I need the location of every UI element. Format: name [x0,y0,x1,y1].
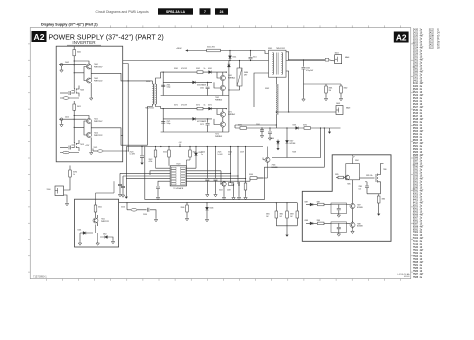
svg-text:7568: 7568 [413,262,419,264]
wire driver bases [74,121,86,135]
svg-text:1k2: 1k2 [266,216,269,218]
svg-text:3548: 3548 [413,119,419,121]
wire secondary top to block1 [156,72,161,84]
svg-text:TMS-91352: TMS-91352 [276,48,285,50]
svg-text:470 2W: 470 2W [181,104,187,106]
svg-text:3561: 3561 [174,68,178,70]
svg-text:PMBT2907: PMBT2907 [94,121,103,123]
wire 5562 top [275,77,277,84]
svg-text:2422: 2422 [429,45,435,47]
svg-text:3198: 3198 [429,36,435,38]
wire bus [119,202,298,204]
svg-text:BZX384: BZX384 [290,143,296,145]
svg-text:7412: 7412 [413,244,419,246]
parts list ticks [413,43,416,262]
svg-text:3831: 3831 [266,214,270,216]
svg-text:3536: 3536 [181,207,185,209]
mosfet 7586 [360,177,375,179]
transistor 7301 [93,218,98,223]
svg-text:3584: 3584 [355,160,359,162]
header tab 24 [215,8,228,14]
svg-text:3567: 3567 [413,143,419,145]
svg-text:3585 10k: 3585 10k [366,175,373,177]
svg-text:3522: 3522 [413,95,419,97]
wire bead line [127,203,147,210]
resistor 3592 [304,127,311,130]
parts list column [413,30,440,279]
ground bank [286,226,288,233]
diode 6572 [193,117,196,120]
sheet label A2 left [32,31,47,42]
svg-text:3590: 3590 [413,167,419,169]
svg-text:2585: 2585 [359,186,363,188]
svg-text:6562: 6562 [413,211,419,213]
supply stub [179,144,181,147]
diode 6587 [306,204,310,206]
transistor 7572 [220,122,225,127]
svg-text:7562: 7562 [413,253,419,255]
capacitor 2591 [260,130,264,131]
resistor 3520 [168,147,170,151]
capacitor 2531 [118,184,122,185]
svg-text:100p: 100p [167,123,171,125]
svg-text:7301: 7301 [101,219,105,221]
bead 5400 [63,97,69,100]
resistor 3562 [197,71,203,74]
svg-text:Display Supply (37"-42") (Part: Display Supply (37"-42") (Part 2) [41,22,98,26]
svg-text:6411: 6411 [413,202,419,204]
svg-text:1k: 1k [204,104,206,106]
capacitor 2592 [269,128,271,131]
svg-text:6566: 6566 [413,214,419,216]
svg-text:7301: 7301 [413,232,419,234]
svg-text:5520: 5520 [146,81,150,83]
header tab SPB1.3A LA [158,8,193,14]
resistor bank 3831 3832 3833 [276,203,297,226]
svg-text:6551: 6551 [233,57,237,59]
resistor 3521 [189,147,191,151]
wire inverter out2 to primary bottom [121,104,153,145]
resistor 3528 [244,183,247,190]
svg-text:7561: 7561 [413,250,419,252]
svg-text:7401: 7401 [413,235,419,237]
svg-text:470p 3kV: 470p 3kV [306,70,314,72]
diode 6562 [193,81,196,84]
resistor 3536 [186,203,188,205]
svg-text:24: 24 [220,10,224,14]
svg-text:3562: 3562 [413,128,419,130]
svg-text:7157J890-1: 7157J890-1 [33,275,47,279]
diode 6565 [227,64,230,67]
zener 6520 [195,147,197,153]
capacitor 2524 [206,147,208,179]
inverter block outline [56,46,123,162]
svg-text:2520: 2520 [413,36,419,38]
svg-text:3563: 3563 [413,131,419,133]
wire loop to rows [352,180,354,202]
svg-text:3562: 3562 [196,68,200,70]
svg-text:3582: 3582 [413,149,419,151]
bias loop 7585 [346,164,360,180]
error amp cluster [221,147,246,185]
svg-text:2551: 2551 [413,56,419,58]
capacitor 2534 [156,187,160,188]
capacitor 2561 [161,85,165,86]
resistor 3587 [313,204,317,206]
resistor 3573 [175,118,177,120]
svg-text:7411: 7411 [413,241,419,243]
diode 6301 [80,225,96,234]
capacitor 2572 [207,119,209,123]
capacitor gate [60,147,68,149]
svg-text:6587: 6587 [305,201,309,203]
capacitor gate [60,92,68,94]
transistor 7526 [222,182,226,186]
wire 5561 secondary top out [286,52,289,60]
svg-text:6571: 6571 [208,104,212,106]
resistor 3563 [175,81,177,83]
svg-text:1u 63V: 1u 63V [130,154,136,156]
diode 6571 [209,107,212,110]
wire 5561 secondary bottom out [286,71,289,112]
resistor 3301 [95,202,97,205]
capacitor 2585 [366,182,368,186]
wire block left leg 56 [162,72,164,95]
svg-text:6567: 6567 [413,217,419,219]
svg-text:2591: 2591 [413,74,419,76]
svg-text:3521: 3521 [413,92,419,94]
wire driver output [91,68,123,81]
svg-text:3526: 3526 [413,104,419,106]
svg-text:3833: 3833 [290,214,294,216]
svg-text:6562 BAV21: 6562 BAV21 [197,83,206,86]
svg-text:3572: 3572 [196,104,200,106]
diode 6551 [229,51,231,56]
svg-text:3411: 3411 [413,83,419,85]
svg-text:5521: 5521 [94,147,98,149]
wires lamp error common [352,211,354,230]
svg-text:1602: 1602 [336,103,340,105]
svg-text:3587: 3587 [413,161,419,163]
svg-text:2526: 2526 [413,53,419,55]
svg-text:3586: 3586 [413,158,419,160]
diode 6561 [209,71,212,74]
svg-text:6566: 6566 [270,138,274,140]
ic pin wires left [150,168,170,175]
svg-text:6591: 6591 [413,229,419,231]
controller IC 7520 [170,166,186,186]
svg-text:3122: 3122 [429,42,435,44]
resistor 3588 [313,222,317,224]
svg-text:6567: 6567 [290,141,294,143]
svg-text:2562: 2562 [413,62,419,64]
svg-text:3524: 3524 [413,101,419,103]
ic long wires left [120,173,170,178]
svg-text:6301: 6301 [413,194,419,196]
capacitor 2412 [59,118,87,120]
svg-text:+380V: +380V [176,48,182,50]
capacitor 2533 [125,178,127,180]
wire 5561 primary return [254,73,269,107]
ground connector 1590 [64,195,68,202]
svg-text:3832: 3832 [280,214,284,216]
svg-text:7562: 7562 [215,97,219,99]
svg-text:3561: 3561 [413,125,419,127]
svg-text:6401: 6401 [413,199,419,201]
svg-text:2551: 2551 [253,57,257,59]
svg-text:1k2: 1k2 [290,216,293,218]
transistor 7566 [265,157,270,162]
wire protection out [107,237,113,240]
svg-text:7413: 7413 [80,144,84,146]
ic pin wire lower left [158,181,170,186]
svg-text:4k7: 4k7 [228,154,231,156]
svg-text:3411: 3411 [77,106,81,108]
svg-text:6588: 6588 [413,226,419,228]
svg-text:7520: 7520 [413,247,419,249]
svg-text:6588: 6588 [305,220,309,222]
svg-text:TL1451ACN: TL1451ACN [173,187,184,190]
wire 5562 bottom [235,115,341,128]
resistor 3590 [69,166,71,171]
svg-text:2523: 2523 [413,45,419,47]
svg-text:Circuit Diagrams and PWB Layou: Circuit Diagrams and PWB Layouts [96,10,149,14]
svg-text:2402: 2402 [65,62,69,64]
svg-text:5562: 5562 [265,88,269,90]
transistor 7401 [87,64,92,69]
svg-text:3591: 3591 [413,170,419,172]
svg-text:3593: 3593 [413,176,419,178]
svg-text:7403: 7403 [80,90,84,92]
svg-text:2422: 2422 [429,39,435,41]
svg-text:1k: 1k [204,68,206,70]
svg-text:5591: 5591 [413,191,419,193]
wire feed +380V [188,50,207,52]
svg-text:7588: 7588 [357,223,361,225]
transistor 7571 [220,112,225,117]
svg-text:470k: 470k [149,161,153,163]
svg-text:SPB1.3A LA: SPB1.3A LA [166,10,186,14]
svg-text:6581: 6581 [413,220,419,222]
svg-text:3582: 3582 [344,88,348,90]
svg-text:2521: 2521 [413,39,419,41]
svg-text:3588: 3588 [413,164,419,166]
svg-text:1k2: 1k2 [280,216,283,218]
svg-text:1u: 1u [201,154,203,156]
svg-text:PMBT2222: PMBT2222 [94,135,103,137]
svg-text:2572: 2572 [200,124,204,126]
mosfet 7x02 [73,127,75,143]
resistor 3522 [155,147,157,151]
resistor 3566 [249,178,251,181]
transistor 7402 [87,78,92,83]
diode 6536 [206,203,208,207]
ground emitter [90,83,92,97]
svg-text:7587: 7587 [357,205,361,207]
wire 12V feed bead [93,150,97,152]
wire rail start drop [125,147,127,196]
wire sense feedback A [272,128,321,158]
wire supply rail 12V inverter [123,64,128,152]
svg-text:7: 7 [204,10,206,14]
wire block mid 57 [163,118,212,120]
resistor 3401 [73,47,75,50]
svg-text:7588: 7588 [413,277,419,279]
diode 6588 [306,222,310,224]
svg-text:7568: 7568 [292,152,296,154]
svg-text:5562: 5562 [413,185,419,187]
svg-text:6301: 6301 [78,230,82,232]
svg-text:5561: 5561 [268,48,272,50]
svg-text:3585: 3585 [413,155,419,157]
svg-text:3571: 3571 [174,104,178,106]
wire hv rail [123,60,325,62]
svg-text:2525: 2525 [218,152,222,154]
svg-text:3547: 3547 [413,116,419,118]
svg-text:3592: 3592 [413,173,419,175]
transistor 7412 [87,133,92,138]
svg-text:3551 2R2: 3551 2R2 [207,47,215,49]
svg-text:PMBT2222: PMBT2222 [101,221,109,223]
transformer 5561 [269,50,287,77]
diode 6567 [286,128,288,140]
capacitor 2532 [121,186,125,187]
svg-text:2421: 2421 [413,33,419,35]
resistor 3586 [379,194,381,196]
svg-text:7520: 7520 [176,164,180,166]
svg-text:5590: 5590 [413,188,419,190]
svg-text:PMBT2907: PMBT2907 [94,67,103,69]
svg-text:7563: 7563 [413,256,419,258]
wire lamp taps [229,61,240,91]
wire inverter out1 to primary top [123,81,153,84]
transistor 7561 [220,75,225,80]
transistor 7588 [350,222,355,227]
wire block left leg 57 [162,109,164,132]
svg-text:7586: 7586 [413,271,419,273]
svg-text:3591: 3591 [238,124,242,126]
ground top stub [329,128,331,130]
svg-text:3301: 3301 [413,77,419,79]
svg-text:7402: 7402 [413,238,419,240]
svg-text:6587: 6587 [413,223,419,225]
svg-text:3564: 3564 [413,134,419,136]
svg-text:3592: 3592 [303,124,307,126]
capacitor 2562 [207,82,209,86]
svg-text:6551: 6551 [413,205,419,207]
svg-text:2536: 2536 [143,214,147,216]
resistor 3585 [336,177,338,179]
svg-text:7581: 7581 [413,265,419,267]
svg-text:POWER SUPPLY (37"-42") (PART 2: POWER SUPPLY (37"-42") (PART 2) [49,35,164,42]
svg-text:A2: A2 [396,32,407,42]
resistor 3526 [228,183,234,186]
svg-text:3484: 3484 [413,86,419,88]
svg-text:5526: 5526 [121,207,125,209]
header tab 7 [200,8,211,14]
transformer 5520 [153,84,154,104]
svg-text:2524: 2524 [413,47,419,49]
wire control rail [126,146,263,148]
wire connector 1602 feed [276,111,336,113]
wire sense feedback B control box [145,128,324,199]
svg-text:6302: 6302 [413,196,419,198]
resistor 3411 [73,101,75,104]
svg-text:5561: 5561 [413,182,419,184]
svg-text:10n: 10n [359,188,362,190]
svg-text:BC848B: BC848B [272,167,278,169]
resistor 3591 [240,127,247,130]
svg-text:1k: 1k [73,174,75,176]
svg-text:65040: 65040 [404,276,410,278]
svg-text:3524: 3524 [219,190,223,192]
ground emitter [90,138,92,152]
transformer 5562 winding [275,84,278,115]
capacitor 2536 [148,208,149,212]
grounds error amp [224,184,246,196]
wire driver collector top [74,61,89,64]
svg-text:2585: 2585 [413,71,419,73]
svg-text:6536: 6536 [210,208,214,210]
svg-text:2522: 2522 [413,42,419,44]
svg-text:3301: 3301 [98,207,102,209]
wire block mid 56 [163,81,212,83]
svg-text:2529: 2529 [240,152,244,154]
diode 6591 [296,127,299,130]
capacitor 2527 [238,182,239,186]
junction sense nodes [320,127,321,128]
wire sense tie [304,83,342,85]
svg-text:7587: 7587 [413,274,419,276]
svg-text:3583: 3583 [413,152,419,154]
wire driver collector top [74,116,89,119]
transistor 7562 [220,85,225,90]
svg-text:3523: 3523 [413,98,419,100]
svg-text:2412: 2412 [65,117,69,119]
svg-text:3530: 3530 [413,110,419,112]
wire block rail 57 [161,108,227,110]
resistor 3582 [340,84,342,86]
svg-text:6591: 6591 [293,124,297,126]
capacitor 2571 [161,122,165,123]
svg-text:1590: 1590 [47,189,51,191]
svg-text:INVERTER: INVERTER [72,40,96,45]
resistor 3581 [325,84,327,86]
svg-text:3546: 3546 [413,113,419,115]
svg-text:3581: 3581 [413,146,419,148]
connector 1601 [335,55,342,64]
svg-text:A2: A2 [34,32,45,42]
svg-text:7585: 7585 [413,268,419,270]
wire into protection [96,181,115,202]
svg-text:3401: 3401 [77,52,81,54]
wire hv to connector 1601 [289,59,325,61]
svg-text:7571: 7571 [228,112,232,114]
svg-text:6561: 6561 [413,208,419,210]
svg-text:3588: 3588 [317,220,321,222]
wire secondary bottom to block2 [156,104,161,109]
transistor 7587 [350,204,355,209]
svg-text:2562: 2562 [200,87,204,89]
wire block lower 56 [161,95,229,97]
ic pin wires right [186,168,250,181]
connector 1602 [336,106,343,115]
svg-text:7566: 7566 [413,259,419,261]
sheet label A2 right [394,32,409,43]
svg-text:3565: 3565 [413,137,419,139]
wire driver bases [74,67,86,81]
protection block outline [75,199,119,247]
